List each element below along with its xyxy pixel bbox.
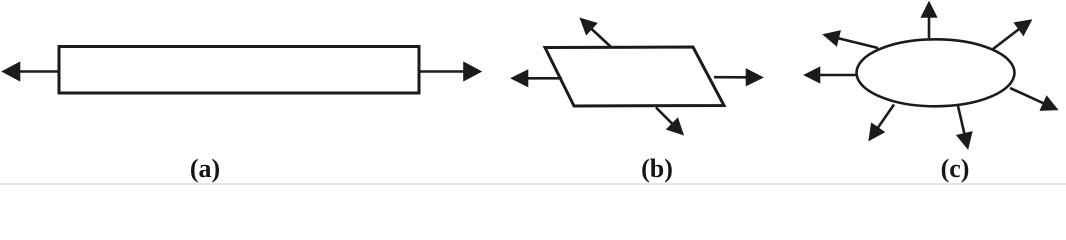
bar (a) rectangle <box>59 47 419 94</box>
svg-text:(c): (c) <box>941 154 970 183</box>
arrow up-left from ellipse (c) <box>825 32 878 48</box>
faint scan line at bottom <box>0 183 1066 185</box>
arrow up-right from ellipse (c) <box>993 21 1030 49</box>
svg-text:(a): (a) <box>190 154 220 183</box>
arrow right of plate (b) <box>714 70 761 84</box>
arrow bottom of plate (b) <box>656 108 682 134</box>
arrow left of bar (a) <box>4 64 59 80</box>
arrow left of plate (b) <box>513 71 562 85</box>
arrow left from ellipse (c) <box>806 69 856 82</box>
arrow up from ellipse (c) <box>923 4 936 39</box>
arrow right of bar (a) <box>419 64 480 80</box>
arrow right-down from ellipse (c) <box>1010 88 1056 110</box>
arrow down-left from ellipse (c) <box>870 105 894 140</box>
plate (b) parallelogram <box>545 47 724 106</box>
arrow top of plate (b) <box>582 20 612 48</box>
arrow down from ellipse (c) <box>958 106 971 147</box>
svg-text:(b): (b) <box>641 154 673 183</box>
body (c) ellipse <box>857 39 1015 106</box>
